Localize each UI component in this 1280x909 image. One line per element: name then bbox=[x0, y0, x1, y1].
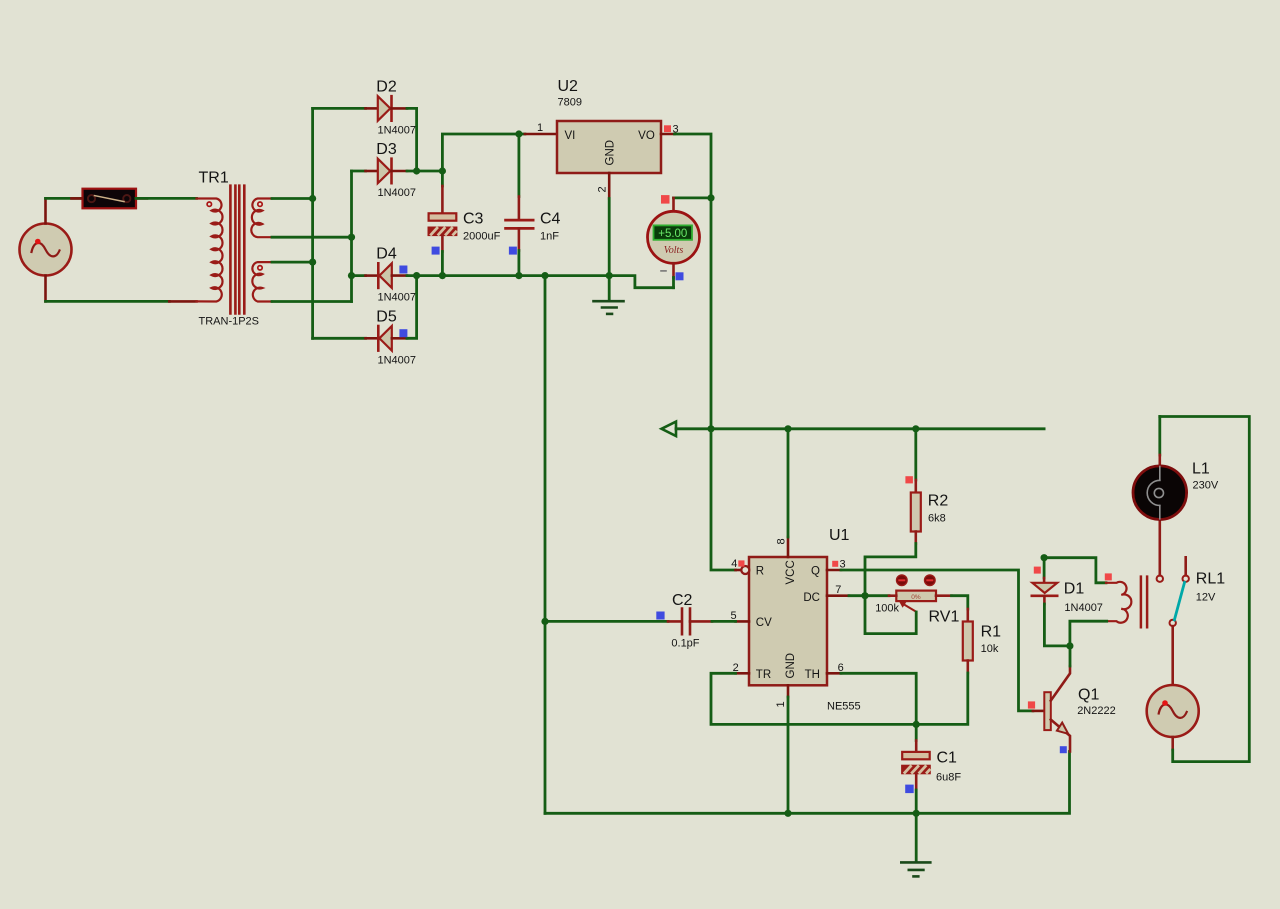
svg-text:Volts: Volts bbox=[664, 245, 684, 256]
resistor R2 bbox=[911, 429, 949, 544]
wire vertical bus B (D3/D4 bus) bbox=[350, 171, 353, 302]
pin 7 stub U1 DC bbox=[827, 594, 849, 597]
core bbox=[230, 186, 244, 314]
svg-text:U1: U1 bbox=[829, 527, 850, 544]
svg-text:+5.00: +5.00 bbox=[658, 228, 687, 240]
marker blue square C4 bbox=[509, 247, 517, 255]
svg-text:1nF: 1nF bbox=[540, 231, 559, 243]
svg-text:0%: 0% bbox=[911, 594, 921, 601]
regulator U2 bbox=[557, 78, 661, 173]
svg-text:D4: D4 bbox=[376, 246, 397, 263]
diode D5 bbox=[313, 276, 417, 367]
pin 8 stub U1 VCC bbox=[787, 537, 790, 557]
wire sec1 bottom to node bbox=[272, 236, 352, 239]
svg-text:6u8F: 6u8F bbox=[936, 772, 961, 784]
wire R2 bottom to DC node bbox=[865, 544, 916, 596]
node dots transformer buses bbox=[309, 195, 316, 202]
svg-text:NE555: NE555 bbox=[827, 701, 861, 713]
node dot rail/R2 bbox=[912, 425, 919, 432]
secondary coil 2 bbox=[252, 262, 272, 301]
svg-text:GND: GND bbox=[605, 140, 617, 166]
transformer TR1 bbox=[197, 186, 273, 314]
svg-text:D3: D3 bbox=[376, 141, 397, 158]
pot button increment bbox=[925, 575, 936, 586]
wire pot right to R1 bbox=[952, 596, 968, 609]
pin 2 stub U1 TR bbox=[736, 672, 750, 675]
wire Q to Q1 base bbox=[841, 570, 1033, 711]
svg-text:100k: 100k bbox=[875, 602, 899, 614]
pot button decrement bbox=[897, 575, 908, 586]
wire R1 bottom to TR loop bbox=[711, 673, 968, 724]
svg-text:2000uF: 2000uF bbox=[463, 231, 501, 243]
diode D4 bbox=[352, 246, 417, 304]
svg-text:C4: C4 bbox=[540, 210, 561, 227]
svg-text:10k: 10k bbox=[981, 643, 999, 655]
svg-text:VI: VI bbox=[565, 130, 576, 142]
phase dot secondary 2 bbox=[258, 266, 262, 270]
pin 4 bubble U1 bbox=[741, 566, 749, 574]
capacitor C4 bbox=[506, 134, 561, 276]
wire sec2 bottom to node bbox=[272, 300, 352, 303]
svg-text:C1: C1 bbox=[937, 749, 958, 766]
node dot C2 tap bbox=[541, 618, 548, 625]
fuse FU1 bbox=[72, 189, 148, 209]
svg-text:TH: TH bbox=[805, 669, 820, 681]
wire V1 bottom lead bbox=[44, 276, 47, 302]
transistor Q1 bbox=[1033, 646, 1116, 752]
resistor R1 bbox=[963, 609, 1001, 673]
marker blue square voltmeter - bbox=[676, 272, 684, 280]
primary coil bbox=[197, 199, 223, 302]
svg-text:0.1pF: 0.1pF bbox=[671, 637, 699, 649]
voltmeter bbox=[648, 198, 700, 288]
svg-text:R1: R1 bbox=[981, 624, 1002, 641]
svg-text:2N2222: 2N2222 bbox=[1077, 705, 1116, 717]
capacitor C3 bbox=[429, 171, 501, 276]
terminal arrow (9V rail) bbox=[662, 422, 677, 436]
marker red square voltmeter + bbox=[661, 195, 670, 204]
svg-text:4: 4 bbox=[731, 558, 737, 570]
svg-text:Q: Q bbox=[811, 566, 820, 578]
svg-text:1N4007: 1N4007 bbox=[1064, 602, 1103, 614]
wire voltmeter + branch bbox=[674, 196, 712, 199]
svg-text:DC: DC bbox=[803, 592, 820, 604]
capacitor C1 bbox=[902, 724, 961, 813]
svg-text:D5: D5 bbox=[376, 308, 397, 325]
wire vertical x545 (CV feed) bbox=[544, 276, 547, 814]
potentiometer RV1 bbox=[875, 591, 959, 626]
secondary coil 1 bbox=[251, 199, 272, 238]
node dot rail/main vertical bbox=[707, 425, 714, 432]
node dot TH/C1 junction bbox=[913, 721, 920, 728]
svg-text:L1: L1 bbox=[1192, 461, 1210, 478]
marker blue square D5 bbox=[399, 329, 407, 337]
marker blue square Q1 emitter bbox=[1060, 746, 1067, 753]
lamp L1 bbox=[1133, 417, 1219, 520]
marker red square relay coil bbox=[1105, 573, 1112, 580]
pin 1 stub U2 bbox=[525, 133, 557, 136]
relay RL1 switch bbox=[1157, 519, 1189, 685]
wire vertical bus A (D2/D5 anode bus) bbox=[311, 108, 314, 338]
node dot voltmeter tap bbox=[707, 194, 714, 201]
pin 6 stub U1 TH bbox=[827, 672, 841, 675]
node dot VI/C4 bbox=[515, 130, 522, 137]
wire VI input bbox=[442, 134, 525, 171]
svg-text:RV1: RV1 bbox=[929, 608, 960, 625]
marker blue square C3 bbox=[432, 247, 440, 255]
node dot C1 rail bbox=[913, 810, 920, 817]
marker red square D1 bbox=[1034, 567, 1041, 574]
wire DC left lead to pot bbox=[889, 594, 896, 597]
diode D3 bbox=[352, 141, 443, 199]
node dot D1/relay/Q1 bbox=[1066, 642, 1073, 649]
svg-text:RL1: RL1 bbox=[1196, 571, 1225, 588]
wire 0V rail bbox=[407, 276, 674, 288]
node dot D1 top bbox=[1041, 554, 1048, 561]
svg-text:7: 7 bbox=[835, 584, 841, 596]
wire sec1 top to node bbox=[272, 197, 313, 200]
node dot GND pin rail bbox=[784, 810, 791, 817]
svg-text:D2: D2 bbox=[376, 79, 397, 96]
svg-text:VCC: VCC bbox=[785, 560, 797, 584]
svg-text:230V: 230V bbox=[1193, 480, 1219, 492]
svg-text:Q1: Q1 bbox=[1078, 687, 1099, 704]
pin 3 stub U1 Q bbox=[827, 569, 841, 572]
svg-text:TR1: TR1 bbox=[199, 170, 229, 187]
ground (bottom) bbox=[901, 813, 930, 876]
svg-text:3: 3 bbox=[840, 558, 846, 570]
svg-text:D1: D1 bbox=[1064, 580, 1085, 597]
marker blue square C2 bbox=[656, 612, 664, 620]
node dot rail/ground bbox=[606, 272, 613, 279]
svg-text:1N4007: 1N4007 bbox=[378, 354, 417, 366]
svg-text:1N4007: 1N4007 bbox=[378, 125, 417, 137]
marker blue square D4 bbox=[399, 266, 407, 274]
phase dot primary bbox=[207, 202, 211, 206]
phase dot secondary 1 bbox=[258, 202, 262, 206]
marker red square U1.4 bbox=[738, 560, 744, 566]
node dot C3 riser junction bbox=[439, 167, 446, 174]
diode D2 bbox=[313, 79, 417, 172]
svg-text:1: 1 bbox=[775, 701, 787, 707]
ground (near U2) bbox=[594, 276, 624, 314]
wire 9V top rail bbox=[676, 427, 1044, 430]
capacitor C2 bbox=[545, 592, 736, 650]
wire V1 top lead bbox=[44, 198, 47, 223]
marker blue square C1 bbox=[905, 785, 914, 794]
svg-text:1N4007: 1N4007 bbox=[378, 292, 417, 304]
pin 2 stub U2 bbox=[608, 173, 611, 199]
svg-text:C2: C2 bbox=[672, 592, 693, 609]
svg-text:7809: 7809 bbox=[558, 97, 582, 109]
svg-text:VO: VO bbox=[638, 130, 655, 142]
node dot rail/VCC bbox=[784, 425, 791, 432]
pin 3 stub U2 bbox=[661, 133, 675, 136]
wire V2 bottom loop to top rail bbox=[1171, 737, 1174, 750]
svg-text:TRAN-1P2S: TRAN-1P2S bbox=[199, 316, 260, 328]
node dot D2/D3 junction bbox=[413, 167, 420, 174]
svg-text:12V: 12V bbox=[1196, 592, 1216, 604]
AC source V2 bbox=[1147, 685, 1199, 737]
svg-text:1N4007: 1N4007 bbox=[378, 187, 417, 199]
pin 5 stub U1 CV bbox=[736, 620, 750, 623]
svg-text:2: 2 bbox=[597, 186, 609, 192]
svg-text:8: 8 bbox=[776, 538, 788, 544]
wire V1 to TR1 primary bottom bbox=[46, 300, 170, 303]
marker red square R2 bbox=[905, 476, 913, 483]
relay RL1 coil bbox=[1106, 577, 1147, 628]
wire VO to main vertical bbox=[675, 134, 712, 429]
wire wiper loop bbox=[865, 596, 916, 634]
diode D1 bbox=[1032, 558, 1103, 646]
svg-text:6k8: 6k8 bbox=[928, 513, 946, 525]
svg-text:GND: GND bbox=[785, 653, 797, 679]
wire rail to relay coil top bbox=[1044, 558, 1106, 583]
timer U1 NE555 bbox=[749, 527, 861, 713]
svg-text:U2: U2 bbox=[558, 78, 579, 95]
marker red square U2.3 bbox=[664, 125, 671, 132]
svg-text:C3: C3 bbox=[463, 210, 484, 227]
node dot DC junction bbox=[861, 592, 868, 599]
svg-text:R2: R2 bbox=[928, 493, 949, 510]
marker red square Q1 base bbox=[1028, 701, 1035, 708]
node dot rail/x545 bbox=[541, 272, 548, 279]
svg-text:CV: CV bbox=[756, 617, 772, 629]
wire V1 to fuse bbox=[46, 197, 83, 200]
wire bottom 0V rail bbox=[545, 752, 1070, 814]
wire TH to loop bbox=[841, 673, 916, 724]
AC source V1 bbox=[20, 224, 72, 276]
node dot rail/C3 bbox=[439, 272, 446, 279]
node dot rail/C4 bbox=[515, 272, 522, 279]
pin 1 stub U1 GND bbox=[787, 685, 790, 697]
svg-text:R: R bbox=[756, 566, 764, 578]
svg-text:TR: TR bbox=[756, 669, 771, 681]
wire R pin feed bbox=[711, 429, 736, 570]
wire relay coil bottom to node bbox=[1070, 621, 1107, 646]
wire fuse to TR1 bbox=[136, 197, 197, 200]
svg-text:1: 1 bbox=[537, 122, 543, 134]
wire sec2 top to node bbox=[272, 261, 313, 264]
node dot rail/D5 bbox=[413, 272, 420, 279]
